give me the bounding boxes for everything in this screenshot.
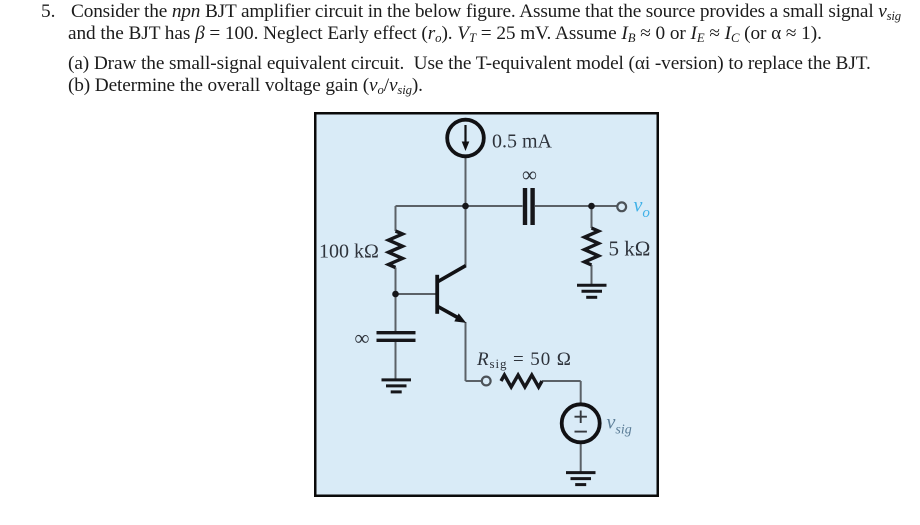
svg-text:∞: ∞ — [355, 326, 370, 350]
svg-text:∞: ∞ — [522, 163, 537, 187]
svg-text:5 kΩ: 5 kΩ — [609, 237, 651, 261]
svg-text:100 kΩ: 100 kΩ — [319, 241, 379, 263]
svg-text:0.5 mA: 0.5 mA — [492, 131, 553, 153]
